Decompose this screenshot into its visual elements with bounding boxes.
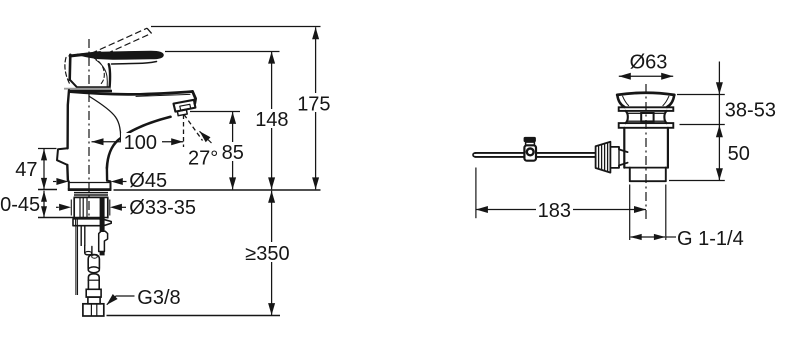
svg-text:27°: 27° xyxy=(188,148,218,170)
dimension line 85 xyxy=(220,112,246,189)
dimension line 350 xyxy=(244,191,293,315)
svg-text:100: 100 xyxy=(124,132,157,154)
mounting washer xyxy=(73,219,111,226)
deck surface line right xyxy=(114,189,321,191)
body right edge xyxy=(106,168,109,181)
handle-body joint shadow xyxy=(64,88,111,90)
hose tube xyxy=(88,255,99,269)
rod clamp screw xyxy=(524,137,536,161)
dimension line 100 xyxy=(92,132,184,154)
handle raised position tip xyxy=(147,28,152,33)
dimension line 175 xyxy=(296,27,335,189)
handle lever bar xyxy=(77,51,163,59)
dimension line 38-53 and 50 xyxy=(716,62,723,181)
extension line tab top xyxy=(38,148,57,150)
faucet vertical centerline xyxy=(88,39,90,216)
handle lever underside xyxy=(112,62,157,65)
hose fitting top xyxy=(88,274,100,290)
handle neck rear edge xyxy=(109,64,110,87)
spout underside xyxy=(107,117,171,168)
handle raised position dashed line upper xyxy=(91,28,147,53)
handle raised position dashed line lower xyxy=(98,33,152,57)
spout angle leader arrow xyxy=(200,131,212,143)
mounting stud xyxy=(100,197,105,255)
dimension diameter 45 xyxy=(53,170,167,192)
svg-text:47: 47 xyxy=(15,159,37,181)
dimension line 47 xyxy=(15,149,47,190)
hose elbow xyxy=(85,246,92,256)
base bottom edge xyxy=(68,188,112,191)
rod coupling nut xyxy=(596,142,611,173)
svg-text:183: 183 xyxy=(538,200,571,222)
svg-text:Ø45: Ø45 xyxy=(129,170,167,192)
extension line 175 top xyxy=(151,26,321,28)
G3/8 hex nut xyxy=(83,304,104,316)
spout angle dashed slanted xyxy=(184,115,203,141)
extension line tailpiece bottom xyxy=(669,180,725,182)
aerator outlet xyxy=(177,110,187,116)
svg-text:G 1-1/4: G 1-1/4 xyxy=(677,228,744,250)
base ring xyxy=(68,181,111,190)
handle neck front curve xyxy=(96,60,107,87)
base gasket lines xyxy=(74,193,109,198)
supply hose left xyxy=(76,226,78,295)
svg-text:38-53: 38-53 xyxy=(725,100,776,122)
hose tube end xyxy=(88,267,99,273)
svg-text:85: 85 xyxy=(222,142,244,164)
spout top edge xyxy=(70,92,193,95)
spout angle dashed vertical xyxy=(183,115,185,148)
minimum hose length line xyxy=(107,315,281,317)
extension line tailpiece left xyxy=(629,185,631,241)
dimension diameter 33-35 xyxy=(56,197,196,219)
label 50 xyxy=(728,143,750,165)
drain vertical centerline xyxy=(645,84,647,221)
svg-text:Ø63: Ø63 xyxy=(630,52,668,74)
extension line 148 top xyxy=(165,51,280,53)
extension lines hole diameter xyxy=(71,200,110,216)
extension line flange top xyxy=(677,94,725,96)
label 38-53 xyxy=(725,100,776,122)
spout top inner line xyxy=(136,94,190,96)
extension line body bottom xyxy=(680,124,725,126)
body left edge lower xyxy=(66,165,69,181)
svg-text:Ø33-35: Ø33-35 xyxy=(129,197,196,219)
label 27 degrees xyxy=(188,148,218,170)
extension line rod end xyxy=(475,168,477,219)
drain flange cup xyxy=(617,93,674,107)
dimension diameter 63 xyxy=(619,52,673,80)
drain waist xyxy=(626,111,667,123)
hose fitting block xyxy=(86,289,101,297)
deck surface line left xyxy=(38,189,57,191)
drain lower ring xyxy=(619,123,674,128)
extension line tailpiece right xyxy=(665,185,667,241)
rod coupling adapter xyxy=(610,147,627,168)
drain upper ring xyxy=(619,107,674,111)
stud clip xyxy=(99,231,108,251)
drain flange inner arcs xyxy=(623,96,669,105)
dimension line deck thickness xyxy=(0,191,47,218)
G3/8 leader xyxy=(107,287,181,309)
supply hose right xyxy=(81,226,85,246)
svg-text:20-45: 20-45 xyxy=(0,194,40,216)
dimension line 148 xyxy=(252,52,291,190)
svg-text:≥350: ≥350 xyxy=(245,243,289,265)
handle block top edge xyxy=(70,53,100,56)
body left edge xyxy=(68,90,69,148)
handle raised position arc left xyxy=(65,58,70,85)
spout inner S-curve xyxy=(90,97,121,141)
handle block bottom edge xyxy=(70,80,109,88)
dimension line 183 xyxy=(476,200,646,222)
pull-rod tab xyxy=(57,148,68,165)
svg-text:175: 175 xyxy=(297,94,330,116)
drain tailpiece xyxy=(630,168,666,182)
spout end face xyxy=(193,91,196,103)
hose fitting neck xyxy=(88,297,100,304)
aerator slot xyxy=(180,104,191,110)
drain waist slot xyxy=(641,113,653,121)
svg-text:G3/8: G3/8 xyxy=(137,287,180,309)
handle cartridge dashed arc xyxy=(93,58,104,84)
handle block left edge xyxy=(68,55,71,80)
body top joint line xyxy=(69,90,112,93)
pop-up rod xyxy=(473,153,595,157)
svg-text:50: 50 xyxy=(728,143,750,165)
extension line spout outlet xyxy=(190,111,240,113)
aerator body xyxy=(174,100,196,112)
dimension G 1-1/4 xyxy=(630,228,744,250)
base ring top line xyxy=(69,182,111,184)
threaded shank xyxy=(74,197,108,218)
svg-text:148: 148 xyxy=(255,109,288,131)
drain body shell xyxy=(624,128,668,168)
deck bottom line xyxy=(38,217,108,219)
